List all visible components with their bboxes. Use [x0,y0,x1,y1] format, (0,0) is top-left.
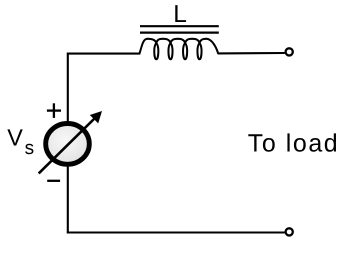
svg-text:s: s [25,138,34,159]
svg-text:To load: To load [248,129,339,157]
svg-text:L: L [173,1,187,28]
svg-text:V: V [7,125,23,151]
